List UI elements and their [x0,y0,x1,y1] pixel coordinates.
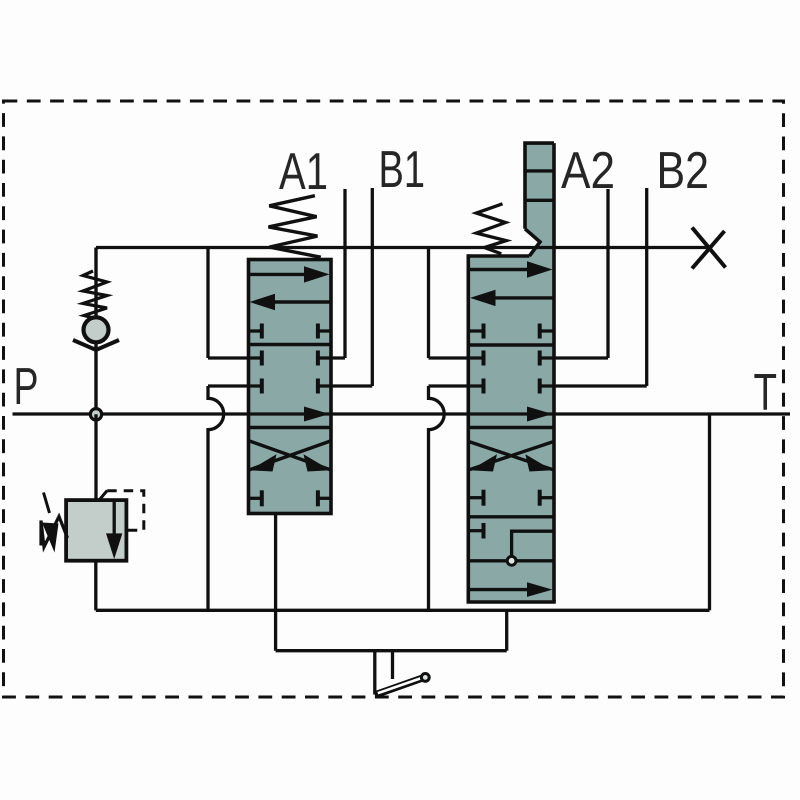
lever handle shaft [375,678,422,695]
relief valve RV1 adjustable spring [41,493,68,553]
relief valve RV1 flow arrow [106,500,122,559]
valve V2 section border 1 [468,343,554,346]
check valve spring [83,271,107,320]
valve V2 blocked port row y498 left [468,490,483,506]
wire: V1 bottom drop [274,514,277,651]
wire: check valve to node [94,344,97,414]
port label P [14,358,39,416]
svg-text:P: P [14,358,39,416]
valve V1 body [249,260,332,514]
wire: V2 bottom riser [505,610,508,650]
valve V1 blocked port row y358 right / wire to A1 [318,351,345,366]
wire: A2 port line [606,189,609,358]
lever knob [421,674,429,682]
valve V1 blocked port row y331 right [318,324,331,339]
valve V2 blocked port row y530 left [468,523,483,539]
valve V2 blocked port row y331 left [468,324,483,339]
port label A1 [279,143,328,201]
lever pivot drop right [391,651,394,679]
valve V2 blocked port row y386 left [429,379,484,394]
wire: V1 supply riser [206,248,209,359]
valve V2 outline [467,143,556,602]
port label B2 [657,142,710,200]
valve V1 blocked port row y386 right / wire to B1 [318,379,372,394]
svg-text:B1: B1 [379,141,426,199]
wire: A1 port line [343,189,346,358]
wire: check valve riser top [94,248,97,319]
valve V1 position-a flow arrow right [249,266,330,282]
valve V1 section border 1 [249,343,332,346]
valve V2 float-section pilot circle [507,556,516,565]
valve V1 blocked port row y498 left [249,490,262,506]
valve V2 float-section arrow [469,582,553,597]
port label B1 [379,141,426,199]
valve V2 P-row arrowhead [527,407,553,422]
wire: V1 return drop with crossover bridge [208,386,224,610]
lever pivot drop left [373,651,376,695]
plugged carryover port X [692,228,726,269]
svg-text:B2: B2 [657,142,710,200]
valve V1 position-a flow arrow left [250,294,331,310]
valve V1 blocked port row y358 left [208,351,262,366]
wire: B1 port line [371,188,374,386]
valve V1 blocked port row y331 left [249,324,262,339]
valve V2 detent block [525,143,554,256]
node: P junction [90,409,101,420]
dashed system boundary [4,101,784,697]
svg-text:A1: A1 [279,143,328,201]
wire: relief valve outlet [94,561,97,611]
wire: B2 port line [645,188,648,386]
valve V1 P-row arrowhead [304,407,330,422]
valve V2 float-section pilot branch [512,531,554,556]
wire: V2 return drop with crossover bridge [429,386,445,610]
valve V2 blocked port row y331 right [540,324,554,339]
valve V1 blocked port row y498 right [318,490,331,506]
wire: node to relief valve [94,414,97,500]
valve V2 blocked port row y386 right / wire to B2 [540,379,647,394]
valve V2 section border 2 [468,426,554,429]
port label A2 [561,142,615,200]
valve V1 crossed arrows [250,441,331,472]
relief valve RV1 pilot line [100,491,144,531]
valve V1 blocked port row y386 left [208,379,262,394]
valve V1 section border 2 [249,426,332,429]
valve V2 section border 3 [468,515,554,518]
check valve ball [84,317,109,342]
valve V2 blocked port row y498 right [540,490,554,506]
valve V2 spring [476,204,506,254]
valve V2 body [468,256,554,602]
wire: P-T main line [13,412,791,415]
wire: V2 supply riser [427,248,430,359]
valve V2 position-a flow arrow left [470,290,553,306]
valve V1 spring [269,196,321,258]
wire: T branch drop [708,414,711,610]
valve V2 blocked port row y358 left [429,351,484,366]
check valve seat [73,340,119,350]
port label T [754,364,778,422]
valve V2 crossed arrows [469,442,553,472]
wire: top carryover line [96,246,709,249]
wire: lever collector line [276,649,507,652]
wire: tank gallery [96,609,710,612]
valve V2 blocked port row y358 right / wire to A2 [540,351,608,366]
valve V2 float-section line [468,559,554,562]
relief valve RV1 body [66,500,126,561]
valve V2 position-a flow arrow right [469,261,553,277]
